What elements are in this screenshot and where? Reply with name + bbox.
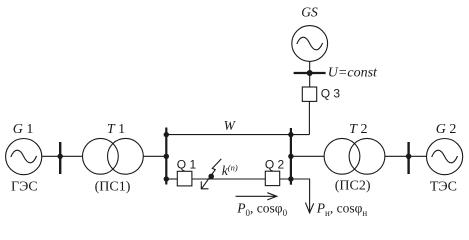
junction dot right bus / W bbox=[288, 132, 293, 137]
generator GS bbox=[292, 26, 328, 62]
bus bar mark near G2 bbox=[407, 142, 409, 174]
svg-text:T 1: T 1 bbox=[107, 122, 125, 137]
generator G1 bbox=[6, 139, 42, 175]
right bus bbox=[290, 128, 292, 185]
breaker Q1 bbox=[177, 171, 192, 186]
wire right bus to T2 bbox=[291, 155, 324, 157]
breaker Q2 bbox=[265, 171, 279, 185]
wire busbar to Q3 bbox=[309, 73, 311, 87]
bus bar mark near G1 bbox=[59, 142, 61, 174]
svg-text:P0, cosφ0: P0, cosφ0 bbox=[236, 200, 287, 218]
junction dot left bus / T1 wire bbox=[164, 154, 169, 159]
load arrowhead Pn bbox=[305, 203, 313, 213]
transformer T1 bbox=[83, 138, 144, 174]
junction dot right bus / Q2 wire bbox=[288, 176, 293, 181]
line W bbox=[166, 134, 309, 136]
wire Q1 to Q2 bbox=[192, 178, 265, 180]
svg-text:U=const: U=const bbox=[328, 66, 378, 81]
svg-text:Pн, cosφн: Pн, cosφн bbox=[316, 200, 368, 218]
junction dot on busbar bbox=[307, 70, 313, 76]
svg-text:k(n): k(n) bbox=[222, 162, 238, 178]
junction dot left bus / W bbox=[164, 132, 169, 137]
junction dot right bus / T2 wire bbox=[288, 154, 293, 159]
wire T1 to left bus bbox=[143, 155, 166, 157]
generator G2 bbox=[427, 139, 463, 175]
svg-text:ГЭС: ГЭС bbox=[11, 179, 38, 194]
svg-text:W: W bbox=[224, 118, 237, 133]
svg-text:(ПС1): (ПС1) bbox=[95, 179, 131, 194]
fault dot k bbox=[208, 174, 214, 180]
junction dot left bus / Q1 wire bbox=[164, 176, 169, 181]
junction dot at G1 bar bbox=[58, 154, 63, 159]
svg-text:GS: GS bbox=[301, 4, 318, 19]
wire G1 to T1 bbox=[41, 155, 82, 157]
breaker Q3 bbox=[302, 87, 316, 101]
svg-text:Q 1: Q 1 bbox=[177, 158, 197, 172]
svg-text:Q 3: Q 3 bbox=[321, 87, 341, 101]
svg-text:(ПС2): (ПС2) bbox=[335, 179, 371, 194]
svg-text:G 2: G 2 bbox=[436, 122, 457, 137]
transformer T2 bbox=[324, 138, 385, 174]
wire Q2 to right bus and load corner bbox=[280, 179, 310, 212]
svg-text:ТЭС: ТЭС bbox=[430, 179, 457, 194]
wire left bus to Q1 bbox=[166, 178, 177, 180]
busbar U=const bbox=[294, 72, 326, 74]
wire Q3 to line W bbox=[308, 101, 310, 134]
junction dot at G2 bar bbox=[406, 154, 411, 159]
left bus bbox=[165, 128, 167, 185]
svg-text:Q 2: Q 2 bbox=[265, 158, 285, 172]
wire T2 to G2 bbox=[385, 155, 427, 157]
svg-text:G 1: G 1 bbox=[13, 122, 34, 137]
arrow P0 bbox=[236, 193, 277, 200]
wire GS to busbar bbox=[309, 61, 311, 73]
svg-text:T 2: T 2 bbox=[349, 122, 367, 137]
fault lightning arrow bbox=[201, 159, 221, 189]
